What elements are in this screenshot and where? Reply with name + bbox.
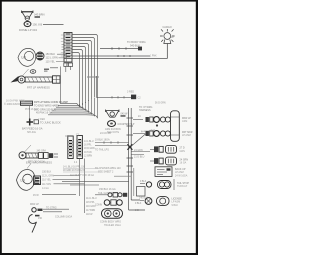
grommet (dash) (30, 67, 58, 73)
label: courtesy lamp wire (121, 113, 129, 117)
svg-text:TO TAIL LPS: TO TAIL LPS (95, 149, 109, 152)
junction block J1 (22, 106, 61, 134)
svg-text:TO JUNC BLOCK: TO JUNC BLOCK (40, 120, 61, 124)
svg-text:2 RED: 2 RED (38, 118, 45, 121)
svg-text:TO ENG WRG HARN: TO ENG WRG HARN (34, 103, 59, 107)
engine harness assembly (19, 145, 58, 165)
svg-text:SPLICE: SPLICE (27, 131, 36, 134)
svg-text:CARGO: CARGO (163, 26, 172, 29)
svg-text:24 GRN: 24 GRN (134, 149, 143, 152)
wire: marker feed (33, 194, 76, 197)
dome lamp socket grommet (24, 21, 31, 26)
svg-text:FRT OF DASH: FRT OF DASH (28, 161, 45, 164)
cargo lamp L2 with rays (160, 29, 175, 59)
wires: crossband at trunk (95, 141, 150, 154)
wire: fuse feed to IP connector (96, 76, 141, 100)
svg-text:SEE SHEET 2: SEE SHEET 2 (98, 170, 114, 173)
tail lamp row 3 (150, 145, 185, 153)
svg-text:150 BLK: 150 BLK (42, 171, 52, 174)
svg-text:110 YEL: 110 YEL (46, 60, 56, 63)
svg-text:150 BLK 16 GA: 150 BLK 16 GA (99, 188, 116, 191)
svg-text:112 L GRN: 112 L GRN (42, 175, 54, 178)
svg-text:110 YEL: 110 YEL (42, 179, 52, 182)
svg-text:118 W: 118 W (86, 214, 93, 216)
svg-text:21 D BLU: 21 D BLU (134, 156, 145, 159)
svg-text:116 GRN: 116 GRN (86, 206, 96, 208)
svg-text:24 W 16GA: 24 W 16GA (175, 174, 188, 177)
svg-text:156 .8 B: 156 .8 B (33, 22, 43, 26)
side marker lamp LH (29, 203, 69, 233)
svg-text:043 W: 043 W (121, 113, 129, 116)
svg-text:114 L BLU: 114 L BLU (86, 198, 97, 200)
svg-text:16 PPL: 16 PPL (84, 145, 92, 147)
wire: license feed (62, 176, 131, 181)
wire: dome lamp feed (33, 22, 64, 26)
license lamp row (140, 179, 189, 190)
svg-text:CONN: CONN (95, 204, 102, 207)
backup lamp connector box (155, 167, 188, 178)
svg-text:TO STRG: TO STRG (46, 207, 57, 210)
svg-text:BAT FEED 16 GA: BAT FEED 16 GA (22, 127, 43, 131)
svg-text:LP: LP (171, 36, 174, 39)
scan border frame (decorative) (0, 0, 198, 255)
svg-text:56 D GRN: 56 D GRN (155, 103, 166, 105)
svg-text:150 BLK: 150 BLK (46, 53, 56, 56)
svg-text:115 PPL: 115 PPL (86, 202, 95, 204)
svg-text:COURTESY LP: COURTESY LP (118, 123, 135, 126)
svg-text:940 BLK: 940 BLK (130, 43, 140, 47)
label above connectors (65, 135, 80, 139)
svg-text:45 W: 45 W (33, 194, 39, 197)
wire fan from C100 to down-bundle (72, 35, 98, 108)
svg-text:24 CO RD: 24 CO RD (100, 132, 111, 135)
main harness trunk (127, 108, 146, 210)
label: cargo lamp (163, 26, 175, 39)
wire: trunk third strand (133, 168, 135, 196)
svg-text:45 PNK 16 GA: 45 PNK 16 GA (36, 112, 53, 115)
junction X1 on trunk (127, 128, 157, 150)
wire bundle down left (70, 159, 99, 214)
label: col wires (46, 207, 73, 219)
connector C102 (headlamp RH) (34, 176, 41, 185)
svg-text:16 GA: 16 GA (180, 162, 187, 165)
labels below bulkhead connectors (63, 162, 99, 177)
svg-text:COLUMN 16GA: COLUMN 16GA (55, 216, 73, 219)
svg-text:© 2004 FAXON: © 2004 FAXON (4, 102, 22, 106)
labels: bulkhead connector pins (84, 141, 95, 157)
wire: long feed to cargo lamp (64, 55, 168, 59)
extra band text rows (34, 109, 56, 115)
svg-text:TURN LP: TURN LP (177, 185, 188, 188)
svg-text:117 BRN: 117 BRN (86, 210, 95, 212)
svg-text:1 PNK: 1 PNK (150, 56, 157, 58)
svg-text:HARNESS: HARNESS (139, 109, 151, 112)
svg-text:16 GA PNK WRG: 16 GA PNK WRG (6, 100, 25, 103)
svg-text:19 BLK 16GA: 19 BLK 16GA (95, 139, 110, 142)
label above headlamp RH (27, 161, 45, 169)
svg-text:150: 150 (38, 217, 43, 220)
svg-text:DOME LP 043: DOME LP 043 (19, 28, 37, 32)
svg-text:14 L BLU 16 PPL 150: 14 L BLU 16 PPL 150 (63, 167, 86, 169)
marker lamp row 1 (133, 116, 191, 127)
labels: crossband (95, 132, 145, 159)
stub label column (86, 198, 97, 216)
svg-text:3 RED: 3 RED (127, 91, 134, 94)
svg-text:CONN: CONN (65, 136, 72, 138)
bulkhead connector C2 (68, 136, 73, 159)
trunk end labels (135, 203, 142, 212)
svg-text:12 BRN: 12 BRN (84, 155, 92, 157)
svg-text:14 GA: 14 GA (42, 187, 49, 190)
steering column connector cluster (95, 188, 127, 197)
tailgate junction box (137, 187, 146, 197)
wires: band rows into elbow bundle (48, 98, 98, 118)
svg-text:LO: LO (22, 56, 27, 60)
svg-text:ASM: ASM (182, 120, 187, 123)
dome lamp DL1 (22, 11, 34, 21)
wire label band (4, 100, 68, 111)
wire: IP feed with splices (100, 47, 142, 51)
courtesy lamp (106, 110, 120, 118)
labels + wires: headlamp RH (42, 171, 85, 190)
label: to IP harness (139, 106, 152, 112)
courtesy lamp grommet (105, 121, 135, 135)
label: body wiring (127, 40, 146, 47)
svg-text:9 BLK: 9 BLK (135, 203, 142, 205)
tail lamp asm row (139, 197, 182, 207)
front lamp harness assembly (11, 69, 61, 83)
headlamp LH (18, 48, 36, 66)
svg-text:TRAILER 16GA: TRAILER 16GA (104, 224, 121, 227)
text band above license wire (95, 167, 121, 195)
svg-text:345 GRA: 345 GRA (37, 150, 47, 153)
connector C100 (IP harness) (61, 33, 72, 63)
svg-text:043 BRN: 043 BRN (34, 13, 45, 17)
connector C101 (headlamp LH) (36, 52, 44, 60)
svg-text:9 BLK: 9 BLK (172, 204, 179, 207)
svg-text:GRN: GRN (180, 150, 186, 153)
svg-text:TO BODY WRG: TO BODY WRG (127, 40, 146, 44)
marker lamp row 2 (133, 131, 193, 138)
svg-text:112 L GRN: 112 L GRN (46, 57, 58, 60)
svg-text:MKR LP: MKR LP (30, 203, 39, 206)
headlamp RH (17, 169, 36, 190)
svg-text:18 D GRN: 18 D GRN (84, 148, 95, 150)
column connector row (95, 200, 122, 207)
lamp row 4 (150, 157, 188, 165)
svg-text:LP ASM: LP ASM (182, 134, 191, 137)
labels + wires: headlamp LH (46, 53, 67, 67)
svg-text:14 L BLU: 14 L BLU (84, 141, 94, 143)
bulkhead connector C3 (77, 136, 82, 159)
svg-text:LO: LO (21, 179, 26, 183)
connector C100 lower cells (64, 63, 73, 66)
svg-text:9 BLK: 9 BLK (140, 181, 147, 183)
tail lamp housing (155, 103, 179, 142)
label: dome lamp wire (34, 13, 45, 18)
svg-text:111 TAN: 111 TAN (42, 183, 51, 186)
svg-text:18 GRN 19 TAN 12 B: 18 GRN 19 TAN 12 B (63, 169, 85, 172)
svg-text:FRT LP HARNESS: FRT LP HARNESS (27, 86, 50, 90)
trailer connector (100, 209, 123, 227)
svg-text:19 TAN: 19 TAN (84, 151, 92, 154)
wire: connector bottom drop (61, 67, 100, 104)
